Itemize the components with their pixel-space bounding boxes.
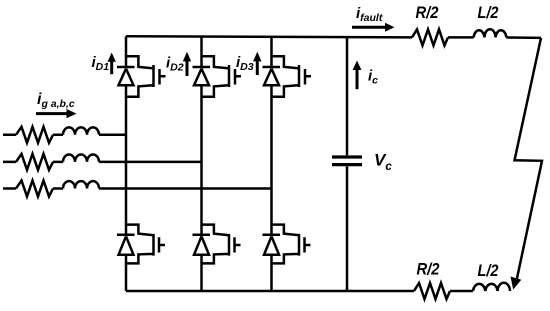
diode D6 bottom (leg 3): [263, 235, 281, 255]
wire top DC rail: [126, 36, 541, 38]
wire leg 2 vertical: [200, 37, 203, 292]
svg-text:iD3: iD3: [236, 54, 254, 73]
arrow i_g: [36, 112, 68, 115]
wire leg 3 vertical: [270, 37, 273, 291]
svg-text:L/2: L/2: [478, 3, 499, 22]
wire phase a line: [3, 134, 126, 137]
svg-text:ifault: ifault: [356, 5, 383, 24]
svg-text:R/2: R/2: [416, 3, 439, 22]
wire phase b line: [3, 161, 202, 164]
svg-text:R/2: R/2: [417, 260, 440, 279]
diode D3 top (leg 3): [263, 67, 281, 85]
resistor R/2 top: [412, 29, 448, 45]
arrow i_c: [356, 68, 359, 89]
transistor S5 bottom (leg 2): [202, 225, 241, 264]
wire bottom DC rail: [126, 290, 473, 293]
arrow i_D3: [256, 60, 259, 75]
transistor S1 top (leg 1): [126, 56, 166, 97]
diode D1 top (leg 1): [117, 67, 135, 85]
transistor S4 bottom (leg 1): [126, 225, 165, 264]
svg-text:ig a,b,c: ig a,b,c: [37, 91, 75, 110]
svg-text:ic: ic: [368, 68, 378, 87]
svg-text:L/2: L/2: [478, 261, 499, 280]
transistor S6 bottom (leg 3): [272, 225, 311, 264]
inductor L/2 top: [474, 29, 507, 37]
wire leg 1 vertical: [125, 36, 128, 291]
wire phase c line: [3, 187, 272, 190]
svg-text:iD2: iD2: [166, 54, 184, 73]
arrow i_D2: [186, 61, 189, 77]
resistor phase c: [16, 181, 53, 197]
inductor L/2 bottom: [473, 283, 510, 291]
resistor R/2 bottom: [414, 283, 450, 299]
transistor S2 top (leg 2): [202, 56, 242, 97]
resistor phase a: [16, 127, 53, 143]
transistor S3 top (leg 3): [272, 56, 312, 97]
inductor phase b: [63, 154, 99, 161]
svg-text:Vc: Vc: [374, 151, 392, 174]
inductor phase c: [63, 181, 99, 188]
capacitor C plates: [332, 157, 362, 165]
svg-text:iD1: iD1: [92, 54, 110, 73]
arrow i_D1: [110, 60, 113, 74]
inductor phase a: [63, 127, 99, 134]
arrow i_fault: [352, 26, 387, 29]
diode D4 bottom (leg 1): [117, 235, 135, 255]
fault bolt arrowhead: [511, 277, 522, 290]
diode D2 top (leg 2): [193, 67, 211, 85]
diode D5 bottom (leg 2): [193, 235, 211, 255]
fault bolt wire: [515, 38, 543, 282]
capacitor C wires: [346, 37, 349, 291]
resistor phase b: [16, 154, 53, 170]
